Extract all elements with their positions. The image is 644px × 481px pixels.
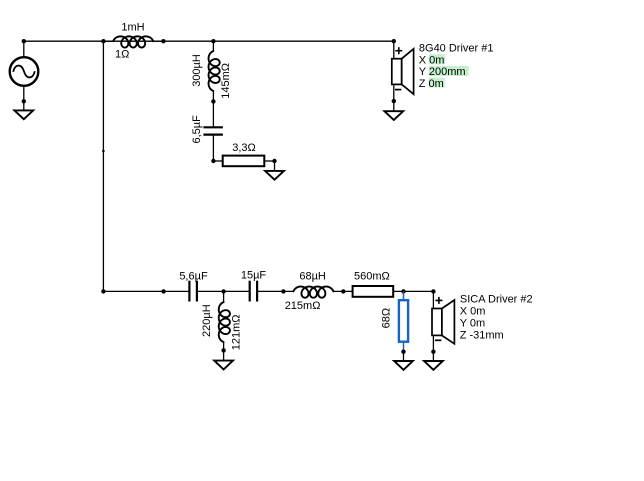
- node C corner: [392, 39, 396, 43]
- svg-text:6,5µF: 6,5µF: [191, 115, 203, 144]
- svg-text:8G40 Driver #1: 8G40 Driver #1: [419, 43, 494, 55]
- node source top junction: [22, 39, 26, 43]
- wire to L1: [103, 40, 113, 42]
- svg-text:215mΩ: 215mΩ: [285, 300, 321, 312]
- wire source to ground: [23, 85, 25, 110]
- wire top rail: [24, 40, 394, 42]
- svg-text:145mΩ: 145mΩ: [220, 63, 232, 99]
- capacitor C3 15uF: [249, 281, 251, 302]
- node after L1: [161, 39, 165, 43]
- node L2-C1: [211, 99, 215, 103]
- node R3 ground junction: [401, 350, 405, 354]
- wire speaker1 to ground: [393, 84, 395, 111]
- wire to L2: [212, 41, 214, 51]
- wire to speaker1 plus: [393, 41, 395, 59]
- wire L2 to C1: [212, 91, 214, 127]
- node source ground junction: [22, 99, 26, 103]
- svg-text:X 0m: X 0m: [419, 54, 445, 66]
- node R1 ground junction: [272, 159, 276, 163]
- wire R3 gnd stub: [403, 352, 405, 361]
- ground R3: [394, 361, 413, 370]
- wire L1 to node: [153, 40, 163, 42]
- node L4-R2: [341, 289, 345, 293]
- svg-text:121mΩ: 121mΩ: [231, 314, 243, 350]
- node E shunt resistor junction: [401, 289, 405, 293]
- node B top junction: [211, 39, 215, 43]
- inductor L2 300uH: [209, 51, 220, 91]
- highlight Y value: [429, 66, 469, 76]
- wire bottom rail 1: [103, 290, 189, 292]
- inductor L3 220uH: [219, 302, 230, 342]
- wire R1 to ground node: [264, 160, 274, 162]
- wire to R1: [213, 160, 222, 162]
- node speaker1 ground junction: [392, 99, 396, 103]
- wire source to rail: [23, 41, 25, 57]
- plus terminal speaker2: [435, 299, 442, 301]
- wire C1 to R1: [212, 135, 214, 161]
- svg-text:300µH: 300µH: [191, 54, 203, 87]
- capacitor C1 6,5uF: [203, 126, 223, 128]
- node speaker2 ground junction: [431, 350, 435, 354]
- svg-text:Z 0m: Z 0m: [419, 78, 444, 90]
- ground speaker1: [384, 111, 403, 120]
- svg-text:Y 0m: Y 0m: [460, 317, 485, 329]
- minus terminal speaker2: [435, 339, 441, 341]
- plus terminal speaker1: [395, 50, 402, 52]
- svg-text:560mΩ: 560mΩ: [354, 270, 390, 282]
- svg-text:5,6µF: 5,6µF: [179, 270, 208, 282]
- inductor L4 68uH: [293, 287, 333, 298]
- wire blue to R3: [403, 291, 405, 300]
- resistor R3 68 ohm (selected blue): [399, 300, 408, 342]
- svg-text:220µH: 220µH: [201, 304, 213, 337]
- svg-text:68µH: 68µH: [299, 270, 326, 282]
- ground speaker2: [424, 361, 443, 370]
- speaker U1 8G40 Driver #1: [392, 59, 402, 85]
- ground source: [14, 110, 33, 119]
- capacitor C2 5,6uF: [188, 281, 190, 302]
- svg-text:X 0m: X 0m: [460, 306, 486, 318]
- inductor L1 1mH: [113, 36, 153, 47]
- wire R2 to speaker2 corner: [393, 290, 433, 292]
- wire L4 to R2: [333, 290, 352, 292]
- node bottom-left corner: [101, 289, 105, 293]
- svg-text:Y 200mm: Y 200mm: [419, 66, 466, 78]
- wire bottom rail 3: [257, 290, 293, 292]
- wire speaker2 to ground: [432, 335, 434, 361]
- node bottom rail: [161, 289, 165, 293]
- node A top-left junction: [101, 39, 105, 43]
- wire blue R3 to ground: [403, 342, 405, 352]
- wire bottom rail 2: [197, 290, 250, 292]
- svg-text:15µF: 15µF: [241, 270, 267, 282]
- resistor R1 3,3 ohm: [223, 156, 265, 167]
- highlight Z value: [429, 78, 445, 88]
- svg-text:Z -31mm: Z -31mm: [460, 329, 504, 341]
- node F corner: [431, 289, 435, 293]
- wire to L3: [223, 291, 225, 302]
- svg-text:1Ω: 1Ω: [115, 49, 129, 61]
- svg-text:SICA Driver #2: SICA Driver #2: [460, 294, 533, 306]
- node D shunt junction: [221, 289, 225, 293]
- highlight X value: [429, 54, 446, 64]
- wire midpoint marker: [102, 150, 105, 153]
- AC voltage source V1: [10, 57, 39, 86]
- node C1-R1: [211, 159, 215, 163]
- wire to speaker2: [432, 291, 434, 308]
- wire left vertical: [102, 41, 104, 291]
- node L3 ground junction: [221, 348, 225, 352]
- resistor R2 560 milliohm: [353, 286, 394, 297]
- wire to ground: [274, 161, 276, 171]
- node before L4: [281, 289, 285, 293]
- speaker U2 SICA Driver #2: [432, 309, 442, 336]
- svg-text:1mH: 1mH: [121, 22, 144, 34]
- ground L3: [214, 361, 233, 370]
- wire L3 to ground: [223, 342, 225, 361]
- svg-text:68Ω: 68Ω: [380, 308, 392, 328]
- ground R1: [265, 171, 284, 180]
- svg-text:3,3Ω: 3,3Ω: [232, 142, 256, 154]
- minus terminal speaker1: [395, 89, 401, 91]
